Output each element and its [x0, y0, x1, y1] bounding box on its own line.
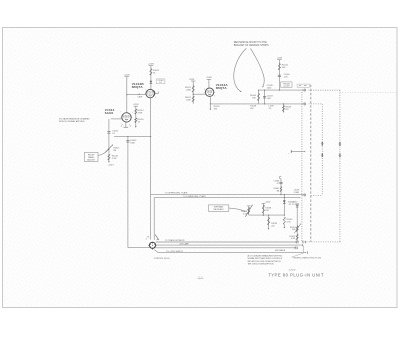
svg-text:SWP/MAG: SWP/MAG — [214, 206, 224, 209]
leader front panel — [98, 149, 109, 156]
svg-text:TO TRACE ROTATOR: TO TRACE ROTATOR — [165, 239, 185, 242]
pin pair right upper — [338, 142, 341, 146]
bus wire upper — [259, 89, 303, 91]
svg-text:CATH: CATH — [137, 96, 142, 99]
svg-text:6BQ7A: 6BQ7A — [216, 86, 228, 90]
dotted link faint — [340, 91, 397, 93]
svg-text:50Ω CABLE: 50Ω CABLE — [275, 249, 286, 252]
connector plug out 1 — [295, 241, 305, 244]
box test point — [281, 82, 292, 88]
connector pair outer — [303, 193, 306, 196]
tube V1013A — [204, 88, 215, 96]
pin numbers V1013B — [145, 89, 157, 99]
svg-text:CONTROL PLUG: CONTROL PLUG — [154, 258, 170, 260]
svg-text:470K: 470K — [138, 113, 143, 115]
svg-text:-150 V: -150 V — [108, 165, 115, 167]
svg-text:2M: 2M — [113, 150, 116, 152]
label C1045 — [267, 85, 274, 89]
resistor ladder +225V — [133, 104, 140, 128]
svg-text:+225V: +225V — [133, 104, 140, 106]
dotted link lower — [309, 103, 323, 105]
bus wire mid — [249, 214, 285, 216]
bus wire lower — [210, 103, 302, 105]
label V1014 — [105, 108, 115, 115]
svg-text:+225V: +225V — [277, 57, 283, 59]
node grid junction — [126, 94, 127, 95]
resistor R1025 — [210, 104, 221, 111]
svg-text:2.2M: 2.2M — [112, 158, 117, 160]
resistor R1049 — [282, 103, 292, 112]
svg-text:+75V LAMP: +75V LAMP — [179, 242, 190, 245]
pin pair right lower — [338, 153, 341, 157]
page mark — [198, 277, 204, 279]
label control plug — [154, 258, 170, 260]
svg-text:+100V: +100V — [265, 202, 271, 204]
svg-text:TO LOWER DEFL. PLATE: TO LOWER DEFL. PLATE — [183, 195, 207, 198]
svg-text:5-21-57: 5-21-57 — [289, 270, 296, 272]
title type 80 — [268, 273, 324, 278]
resistor R1040 — [283, 215, 292, 229]
label V1013A — [216, 83, 229, 90]
capacitor C1048 — [273, 176, 282, 195]
pin numbers V1014 — [120, 112, 133, 125]
svg-text:* INTERCONNECTING PLUG: * INTERCONNECTING PLUG — [292, 257, 322, 259]
wire grid V1013A — [193, 94, 206, 95]
wire pair inner — [154, 198, 299, 240]
label cathode bias — [137, 94, 142, 99]
wire plug out 2 — [156, 242, 301, 245]
cathode stub V1014 — [121, 122, 131, 127]
svg-text:TO +225V SUPPLY: TO +225V SUPPLY — [166, 251, 184, 253]
svg-text:WITH NO SIGNAL APPLIED.: WITH NO SIGNAL APPLIED. — [59, 120, 85, 123]
cable dotted right — [339, 90, 341, 242]
note interconnecting plug — [292, 253, 322, 259]
dotted bottom — [302, 241, 341, 243]
wire plug out 3 — [154, 250, 307, 254]
svg-text:220: 220 — [271, 225, 274, 227]
divider R1051 — [292, 202, 300, 242]
note mechanical mount — [234, 41, 269, 47]
svg-text:+225V: +225V — [189, 79, 195, 81]
resistor R1046 — [250, 90, 260, 104]
wire junction row — [114, 136, 151, 137]
shield dotted left — [301, 92, 303, 242]
connector plug out 2 — [301, 244, 303, 246]
resistor R1013 — [150, 69, 160, 76]
svg-text:SET AS FOLLOWS OR AS NOTED IN: SET AS FOLLOWS OR AS NOTED IN — [248, 260, 282, 263]
svg-text:1.5K: 1.5K — [287, 222, 292, 224]
svg-text:BRACKET OF CERAMIC STRIPS: BRACKET OF CERAMIC STRIPS — [234, 44, 269, 47]
resistor R1018 — [108, 154, 119, 160]
label +225 supply — [166, 251, 184, 253]
svg-text:4: 4 — [146, 238, 147, 240]
svg-text:7: 7 — [120, 112, 121, 114]
svg-text:REGIS ADJ: REGIS ADJ — [214, 208, 224, 211]
resistor R1022 — [185, 96, 194, 102]
plug circle — [148, 242, 157, 249]
potentiometer R1017 — [105, 144, 120, 153]
resistor R1039 — [268, 215, 277, 230]
connector pair inner — [299, 197, 300, 198]
svg-text:220K: 220K — [186, 89, 191, 91]
wire plug out coax — [156, 248, 295, 252]
wire input column — [108, 119, 110, 161]
neon B1050 — [283, 194, 300, 215]
label L1059 — [294, 190, 300, 194]
svg-text:TO UPPER DEFL. PLATE: TO UPPER DEFL. PLATE — [165, 192, 188, 195]
plug stub top diag — [147, 235, 158, 240]
label date — [289, 270, 296, 272]
connector plug coax — [294, 245, 303, 252]
svg-text:6: 6 — [204, 89, 205, 91]
wire grid V1014 to V1013B — [127, 94, 146, 96]
svg-text:SIGNAL INPUT AND WITH CONTROLS: SIGNAL INPUT AND WITH CONTROLS — [248, 257, 283, 260]
wire plate feed V1013A — [206, 77, 213, 88]
cable dotted mid — [321, 104, 323, 195]
leader curve right — [251, 48, 265, 87]
svg-text:+12.2V: +12.2V — [283, 86, 290, 88]
svg-text:100K: 100K — [186, 100, 191, 102]
resistor R1016 — [135, 118, 145, 123]
pin numbers V1013A — [204, 89, 215, 98]
svg-text:+225V: +225V — [292, 202, 298, 204]
diode D1013 — [150, 79, 165, 84]
wire plate feed V1014 — [124, 75, 131, 113]
svg-text:ALL VOLTAGES MEASURED WITH NO: ALL VOLTAGES MEASURED WITH NO — [248, 254, 283, 257]
resistor R1052 — [289, 234, 298, 240]
tube V1013B — [145, 89, 156, 97]
note all voltages — [248, 254, 283, 265]
ground -150V — [108, 161, 115, 166]
connector bus upper — [303, 89, 306, 92]
box swp mag regis — [208, 205, 228, 211]
capacitor C1044 — [278, 74, 291, 79]
pin pair mid lower — [321, 153, 324, 157]
potentiometer R1036 — [241, 204, 253, 217]
svg-text:+100V: +100V — [124, 75, 131, 77]
supply ladder +225V — [277, 57, 283, 90]
potentiometer R1051 body — [290, 223, 301, 233]
capacitor C1016 — [107, 131, 118, 136]
label to upper plate — [165, 192, 188, 195]
label to lower plate — [183, 195, 207, 198]
svg-text:4.7: 4.7 — [276, 183, 279, 185]
svg-text:6BQ7A: 6BQ7A — [132, 85, 144, 89]
wire plug out 1 — [156, 241, 295, 243]
dotted link upper — [309, 89, 340, 91]
dotted link pair — [311, 194, 323, 196]
capacitor C1019 — [126, 137, 137, 248]
resistor R1021 — [185, 86, 194, 93]
svg-text:+100V: +100V — [206, 77, 213, 79]
svg-text:ADJUST: ADJUST — [87, 158, 95, 161]
box front panel control — [84, 152, 98, 161]
svg-text:COAX: COAX — [294, 191, 300, 194]
resistor R1014 — [135, 109, 145, 115]
label R1048 — [250, 106, 256, 111]
label trace rotator — [165, 239, 185, 242]
box jack — [297, 84, 309, 87]
wire cathode V1013A — [210, 96, 211, 104]
resistor R1038 — [262, 202, 272, 216]
wire V1014 grid left — [111, 118, 122, 120]
svg-text:6: 6 — [132, 112, 133, 114]
wire plate feed V1013B — [148, 64, 155, 90]
label pin4 — [146, 238, 147, 240]
svg-text:100K: 100K — [130, 142, 135, 144]
label V1013B — [132, 82, 145, 89]
svg-text:910: 910 — [250, 108, 253, 110]
svg-text:6AU6: 6AU6 — [105, 111, 114, 115]
tube V1014 — [121, 113, 133, 122]
note voltage readings — [59, 118, 90, 124]
wire pair outer — [151, 195, 303, 240]
grid ladder V1013A — [189, 79, 196, 104]
pin pair mid upper — [321, 142, 324, 146]
wire plug feed left — [128, 247, 150, 249]
svg-text:1.8K: 1.8K — [252, 98, 257, 100]
shield dashed vertical — [310, 85, 312, 242]
svg-text:1M: 1M — [276, 190, 279, 192]
svg-text:TYPE 80 PLUG-IN UNIT: TYPE 80 PLUG-IN UNIT — [268, 273, 324, 278]
wire ext arrow — [288, 150, 305, 155]
svg-text:3.9: 3.9 — [269, 108, 272, 110]
label L1047 — [269, 105, 274, 109]
leader curve left — [234, 48, 247, 92]
stub V1013B plate right — [153, 91, 159, 96]
svg-text:+100V: +100V — [148, 64, 155, 66]
svg-text:MECHANICAL MOUNT TO THE: MECHANICAL MOUNT TO THE — [234, 41, 267, 44]
leader swp box — [229, 208, 246, 212]
capacitor C1047 — [263, 90, 274, 105]
svg-text:THE CIRCUIT DESCRIPTION.: THE CIRCUIT DESCRIPTION. — [248, 264, 275, 266]
wire cathode V1013B down — [150, 98, 152, 195]
svg-text:2.5K: 2.5K — [243, 214, 248, 216]
resistor R1044 — [278, 63, 288, 70]
svg-text:8: 8 — [214, 95, 215, 97]
svg-text:3: 3 — [155, 97, 156, 99]
connector bus lower — [303, 102, 306, 105]
